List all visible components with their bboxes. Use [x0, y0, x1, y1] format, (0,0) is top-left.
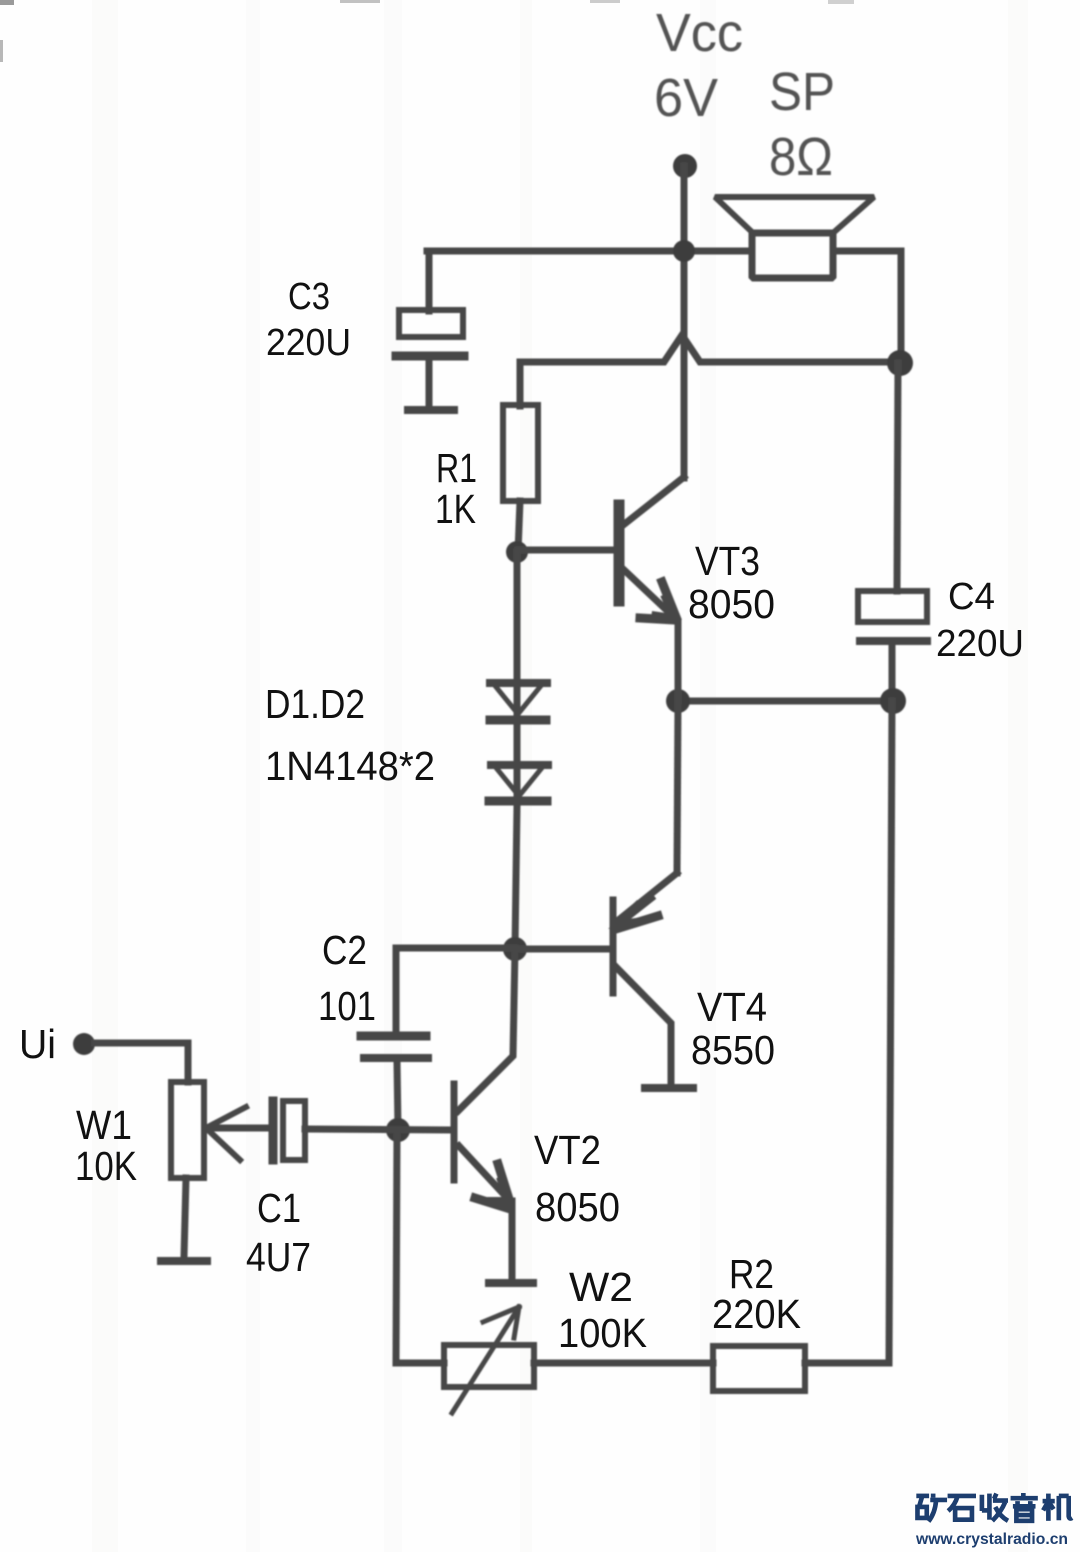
svg-text:W2: W2 [569, 1264, 633, 1310]
wire C4 bottom lead [889, 644, 896, 701]
ground VT2 emitter bar [489, 1279, 533, 1287]
svg-text:220U: 220U [266, 322, 351, 364]
junction right rail upper [887, 350, 913, 376]
wire left bottom vertical to W2 [396, 1130, 444, 1363]
watermark char shi [948, 1496, 976, 1520]
junction D2 / C2 / VT4 base / VT2 collector [503, 937, 527, 961]
svg-text:SP: SP [769, 62, 835, 122]
wire C2 top lead [396, 948, 515, 1032]
junction top rail / Vcc [673, 240, 695, 262]
junction C2 / VT2 base [386, 1118, 410, 1142]
wire top rail y=251 from C3 corner to speaker [427, 248, 752, 255]
wire right rail to C4 top [897, 363, 898, 591]
diode D2 [489, 764, 548, 801]
capacitor C2 [361, 1036, 428, 1058]
svg-text:8050: 8050 [535, 1184, 620, 1230]
wire right rail lower [805, 701, 892, 1363]
wire node through D1 D2 to lower node [515, 552, 517, 949]
wire VT4 base [515, 946, 607, 953]
svg-text:8550: 8550 [691, 1027, 775, 1073]
watermark crystalradio logo [915, 1493, 1072, 1548]
svg-text:220K: 220K [712, 1291, 801, 1337]
ground W1 bottom bar [161, 1257, 207, 1265]
speaker SP [715, 197, 874, 278]
junction output node [666, 689, 690, 713]
capacitor C4 [858, 591, 927, 641]
svg-text:10K: 10K [75, 1143, 137, 1189]
wire VT2 emitter down [509, 1201, 516, 1279]
potentiometer W1 [171, 1082, 246, 1178]
svg-text:220U: 220U [936, 623, 1024, 665]
svg-text:R1: R1 [436, 445, 477, 491]
wire output node horizontal [678, 698, 893, 705]
resistor R2 [713, 1346, 805, 1391]
svg-text:8050: 8050 [688, 581, 775, 627]
svg-text:D1.D2: D1.D2 [265, 681, 365, 727]
svg-text:VT3: VT3 [695, 538, 760, 584]
watermark char ji [1043, 1494, 1073, 1521]
watermark char yin [1011, 1493, 1038, 1521]
svg-text:Ui: Ui [19, 1021, 56, 1067]
svg-text:VT4: VT4 [697, 984, 767, 1030]
wire R1 top to right rail with hop over Vcc line [520, 335, 897, 406]
svg-text:100K: 100K [558, 1310, 647, 1356]
watermark char kuang [916, 1494, 947, 1522]
node Vcc terminal [673, 154, 697, 178]
watermark char shou [982, 1494, 1008, 1521]
ground VT4 collector bar [645, 1084, 693, 1092]
svg-text:6V: 6V [654, 68, 718, 128]
capacitor C3 [396, 251, 464, 410]
svg-text:4U7: 4U7 [246, 1234, 311, 1280]
junction C4 bottom / right rail [880, 688, 906, 714]
svg-text:C4: C4 [948, 576, 995, 618]
wire VT3 base [518, 547, 612, 554]
svg-text:C3: C3 [288, 276, 330, 318]
wire C2 bottom lead [397, 1062, 398, 1130]
node Ui input terminal [73, 1033, 95, 1055]
wire W1 bottom [184, 1178, 186, 1257]
wire Vcc vertical from terminal to VT3 collector [681, 166, 688, 478]
svg-text:1K: 1K [435, 486, 476, 532]
svg-text:www.crystalradio.cn: www.crystalradio.cn [915, 1531, 1068, 1548]
svg-text:VT2: VT2 [534, 1127, 601, 1173]
transistor VT2 [454, 949, 515, 1208]
svg-text:Vcc: Vcc [656, 3, 743, 63]
svg-text:101: 101 [318, 983, 376, 1029]
junction R1 / D1 / VT3 base [506, 541, 528, 563]
wire Ui to W1 top [95, 1043, 188, 1082]
transistor VT4 [613, 701, 678, 1085]
svg-text:1N4148*2: 1N4148*2 [265, 743, 435, 789]
svg-text:8Ω: 8Ω [769, 127, 833, 187]
label Vcc [654, 3, 835, 187]
svg-text:C2: C2 [322, 927, 367, 973]
wire VT2 base from C1 [305, 1129, 450, 1130]
svg-text:W1: W1 [76, 1102, 132, 1148]
transistor VT3 [619, 477, 684, 701]
wire R1 bottom to node [518, 501, 520, 552]
wire W1 wiper to C1 [206, 1125, 270, 1132]
wire W2 to R2 [534, 1360, 713, 1367]
wire speaker right to right rail down [833, 251, 901, 363]
diode D1 [490, 682, 547, 720]
capacitor C1 [273, 1101, 305, 1160]
potentiometer W2 [444, 1307, 534, 1413]
resistor R1 [503, 405, 538, 501]
svg-text:C1: C1 [257, 1185, 301, 1231]
